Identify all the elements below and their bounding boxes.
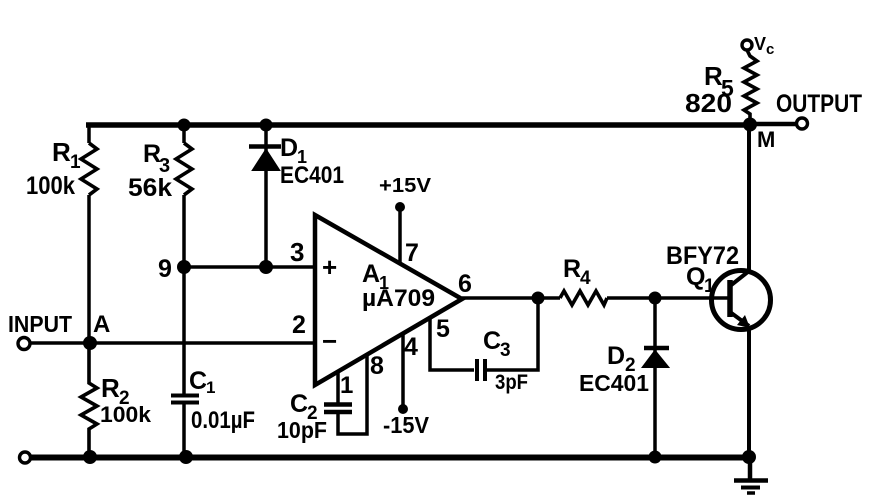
label C1	[189, 367, 215, 397]
label -15V	[383, 412, 430, 438]
svg-text:-15V: -15V	[383, 412, 430, 438]
svg-text:C: C	[189, 367, 207, 395]
svg-text:100k: 100k	[26, 172, 75, 200]
wire R3 bottom through node 9 down to C1	[182, 195, 186, 394]
svg-text:R: R	[101, 373, 120, 403]
svg-text:µA709: µA709	[362, 285, 435, 312]
node +15V arrow dot	[395, 202, 405, 212]
wire op-amp output pin 6	[462, 296, 560, 300]
label INPUT	[8, 311, 72, 337]
svg-text:3: 3	[290, 237, 304, 267]
svg-text:8: 8	[370, 352, 384, 380]
label 10pF	[277, 417, 327, 443]
node C3/R4 junction	[532, 292, 545, 305]
label R1	[52, 137, 81, 173]
svg-text:3: 3	[500, 340, 511, 361]
svg-text:+15V: +15V	[379, 175, 432, 197]
label R5	[704, 61, 734, 101]
resistor R3	[176, 143, 192, 195]
terminal Vc	[742, 40, 752, 50]
capacitor C2	[324, 405, 352, 413]
node M	[743, 118, 757, 132]
wire C2 bottom around to pin 8	[338, 356, 367, 435]
svg-text:4: 4	[404, 333, 418, 361]
diode D2	[643, 348, 669, 367]
label EC401 (D2)	[579, 370, 649, 396]
ground	[734, 457, 768, 493]
node -15V arrow dot	[398, 404, 408, 414]
wire op-amp pin 7 to +15V	[398, 207, 402, 264]
resistor R4	[560, 291, 607, 305]
capacitor C3	[477, 359, 485, 381]
label pin 1	[340, 372, 353, 399]
label node A	[93, 311, 110, 338]
svg-text:−: −	[322, 326, 337, 356]
svg-text:Q: Q	[686, 263, 705, 291]
label node 9	[158, 255, 172, 283]
label pin 7	[405, 239, 419, 267]
node A junction	[83, 336, 97, 350]
svg-text:INPUT: INPUT	[8, 311, 72, 337]
node emitter bottom junction	[742, 450, 756, 464]
wire INPUT to op-amp pin 2	[30, 341, 315, 345]
svg-text:9: 9	[158, 255, 172, 283]
wire node M to OUTPUT	[750, 122, 796, 127]
svg-text:7: 7	[405, 239, 419, 267]
svg-text:5: 5	[436, 315, 450, 343]
label pin 8	[370, 352, 384, 380]
svg-text:1: 1	[70, 152, 81, 173]
terminal OUTPUT	[797, 118, 808, 129]
label R3	[143, 140, 170, 177]
label BFY72	[666, 242, 739, 270]
svg-text:C: C	[483, 327, 501, 355]
svg-text:+: +	[322, 252, 337, 282]
label EC401 (D1)	[280, 162, 344, 189]
wire C1 bottom to ground rail	[182, 404, 186, 457]
svg-text:10pF: 10pF	[277, 417, 327, 443]
transistor Q1	[712, 271, 771, 330]
svg-text:56k: 56k	[128, 174, 172, 202]
wire R1 bottom to node A	[87, 195, 91, 343]
svg-text:A: A	[362, 260, 380, 288]
resistor R5	[744, 50, 757, 125]
diode D2 vertical wire	[653, 298, 657, 457]
wire op-amp pin 4 to -15V	[401, 334, 405, 409]
svg-text:OUTPUT: OUTPUT	[776, 90, 862, 118]
diode D1	[249, 147, 281, 171]
node top rail R3 junction	[178, 119, 191, 132]
wire top rail (node M feedback rail)	[86, 122, 750, 128]
svg-text:6: 6	[458, 270, 472, 298]
label plus input	[322, 252, 337, 282]
op-amp U1 triangle	[315, 215, 462, 385]
resistor R1	[81, 143, 97, 195]
node 9 junction	[177, 260, 191, 274]
label 100k (R2)	[100, 402, 152, 427]
label D2	[607, 342, 636, 376]
wire R1 column top	[87, 123, 91, 143]
capacitor C1	[171, 396, 199, 403]
svg-text:c: c	[766, 41, 774, 58]
svg-text:2: 2	[292, 311, 306, 339]
svg-text:C: C	[290, 390, 308, 418]
svg-text:1: 1	[704, 276, 715, 297]
resistor R2	[81, 343, 97, 457]
wire Q1 emitter to ground rail	[747, 326, 751, 457]
label pin 5	[436, 315, 450, 343]
label pin 2	[292, 311, 306, 339]
wire bottom ground rail	[31, 455, 750, 461]
label Vc	[754, 34, 774, 58]
label A1	[362, 260, 389, 293]
diode D1 vertical wire	[264, 123, 268, 267]
label node M	[757, 127, 775, 152]
terminal bottom left	[20, 452, 31, 463]
wire R3 column top	[182, 123, 186, 143]
label pin 4	[404, 333, 418, 361]
node top rail D1 junction	[260, 119, 273, 132]
svg-text:V: V	[754, 34, 766, 54]
node D1 bottom junction	[259, 260, 273, 274]
svg-text:R: R	[563, 255, 581, 283]
wire op-amp pin 1 down to C2	[336, 371, 340, 404]
svg-text:1: 1	[206, 378, 215, 397]
svg-text:D: D	[607, 342, 625, 370]
svg-text:EC401: EC401	[280, 162, 344, 189]
svg-text:D: D	[280, 134, 298, 162]
label pin 6	[458, 270, 472, 298]
label uA709	[362, 285, 435, 312]
label minus input	[322, 326, 337, 356]
svg-text:1: 1	[340, 372, 353, 399]
node D2 top junction	[649, 292, 662, 305]
svg-text:EC401: EC401	[579, 370, 649, 396]
svg-text:A: A	[93, 311, 110, 338]
wire node 9 to op-amp pin 3	[184, 265, 315, 269]
node C1 bottom junction	[179, 450, 193, 464]
label R2	[101, 373, 130, 409]
label 56k	[128, 174, 172, 202]
label OUTPUT	[776, 90, 862, 118]
terminal INPUT	[18, 338, 30, 350]
svg-text:0.01µF: 0.01µF	[191, 407, 255, 434]
label Q1	[686, 263, 715, 297]
wire Q1 collector to node M	[747, 125, 751, 271]
label R4	[563, 255, 591, 289]
label +15V	[379, 175, 432, 197]
label 100k	[26, 172, 75, 200]
wire op-amp pin 5 down	[430, 318, 474, 370]
svg-text:100k: 100k	[100, 402, 152, 427]
label D1	[280, 134, 307, 167]
node R2 bottom junction	[83, 450, 97, 464]
svg-text:M: M	[757, 127, 775, 152]
node D2 bottom junction	[649, 451, 662, 464]
wire R4 to Q1 base	[607, 296, 730, 300]
label 3pF	[495, 371, 528, 394]
label pin 3	[290, 237, 304, 267]
label C2	[290, 390, 318, 424]
svg-text:4: 4	[580, 268, 591, 289]
label C3	[483, 327, 511, 361]
svg-text:3pF: 3pF	[495, 371, 528, 394]
svg-text:820: 820	[685, 88, 732, 118]
label 820	[685, 88, 732, 118]
label 0.01uF	[191, 407, 255, 434]
wire C3 right side up to output node	[487, 298, 538, 370]
svg-text:R: R	[52, 137, 71, 167]
